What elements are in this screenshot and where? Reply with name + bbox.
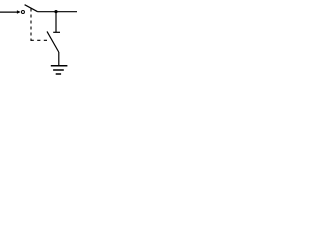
contact bar switch SW2 — [53, 31, 60, 33]
contact circle switch SW1 — [21, 10, 24, 13]
wire input left — [0, 11, 17, 13]
wire to ground — [58, 52, 60, 66]
arrowhead — [17, 10, 21, 13]
wire vertical from node A — [55, 12, 57, 33]
junction dot node A — [54, 10, 57, 13]
switch blade SW1 — [25, 5, 38, 12]
wire top right — [38, 11, 77, 13]
dashed linkage horizontal segment — [31, 39, 48, 41]
switch blade SW2 — [47, 31, 59, 52]
ground — [51, 66, 68, 74]
dashed linkage vertical segment — [30, 9, 32, 41]
